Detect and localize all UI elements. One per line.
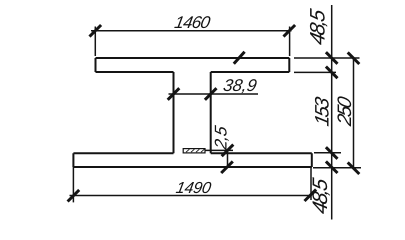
svg-text:153: 153 bbox=[312, 95, 334, 128]
right extension lines bbox=[294, 58, 361, 168]
beam web bbox=[174, 72, 211, 153]
svg-text:1490: 1490 bbox=[175, 179, 213, 197]
svg-text:48,5: 48,5 bbox=[309, 176, 332, 216]
tick right 1490 bbox=[305, 189, 317, 201]
tick left 1490 bbox=[68, 190, 80, 202]
bearing plate hatched bbox=[183, 149, 205, 153]
svg-text:2,5: 2,5 bbox=[211, 124, 231, 152]
tick 2,5 upper bbox=[222, 145, 234, 157]
dim line 250 bbox=[353, 58, 355, 168]
tick right 1460 bbox=[284, 25, 296, 37]
dim 2,5 pointer line bbox=[205, 150, 233, 167]
svg-text:250: 250 bbox=[334, 95, 356, 129]
tick 250 top bbox=[348, 52, 360, 64]
tick left 1460 bbox=[90, 25, 102, 37]
svg-text:1460: 1460 bbox=[173, 12, 212, 32]
svg-text:48,5: 48,5 bbox=[307, 7, 330, 47]
tick 153 bottom bbox=[326, 147, 338, 159]
tick 2,5 lower bbox=[221, 161, 233, 173]
tick 250 bottom bbox=[348, 162, 360, 174]
tick 48,5 top upper bbox=[326, 52, 338, 64]
mark on flange bbox=[234, 52, 245, 64]
beam top flange bbox=[96, 58, 290, 72]
dim line 38,9 bbox=[169, 93, 259, 95]
tick 48,5 top lower bbox=[326, 67, 338, 79]
dim line 48,5/153/48,5 bbox=[331, 5, 333, 220]
dim line 1460 bbox=[91, 27, 292, 57]
tick right 38,9 bbox=[205, 88, 217, 100]
dim line 1490 bbox=[70, 167, 312, 202]
tick left 38,9 bbox=[168, 88, 180, 100]
svg-text:38,9: 38,9 bbox=[222, 75, 259, 95]
tick 48,5 bottom lower bbox=[326, 161, 338, 173]
beam bottom flange bbox=[73, 153, 311, 167]
